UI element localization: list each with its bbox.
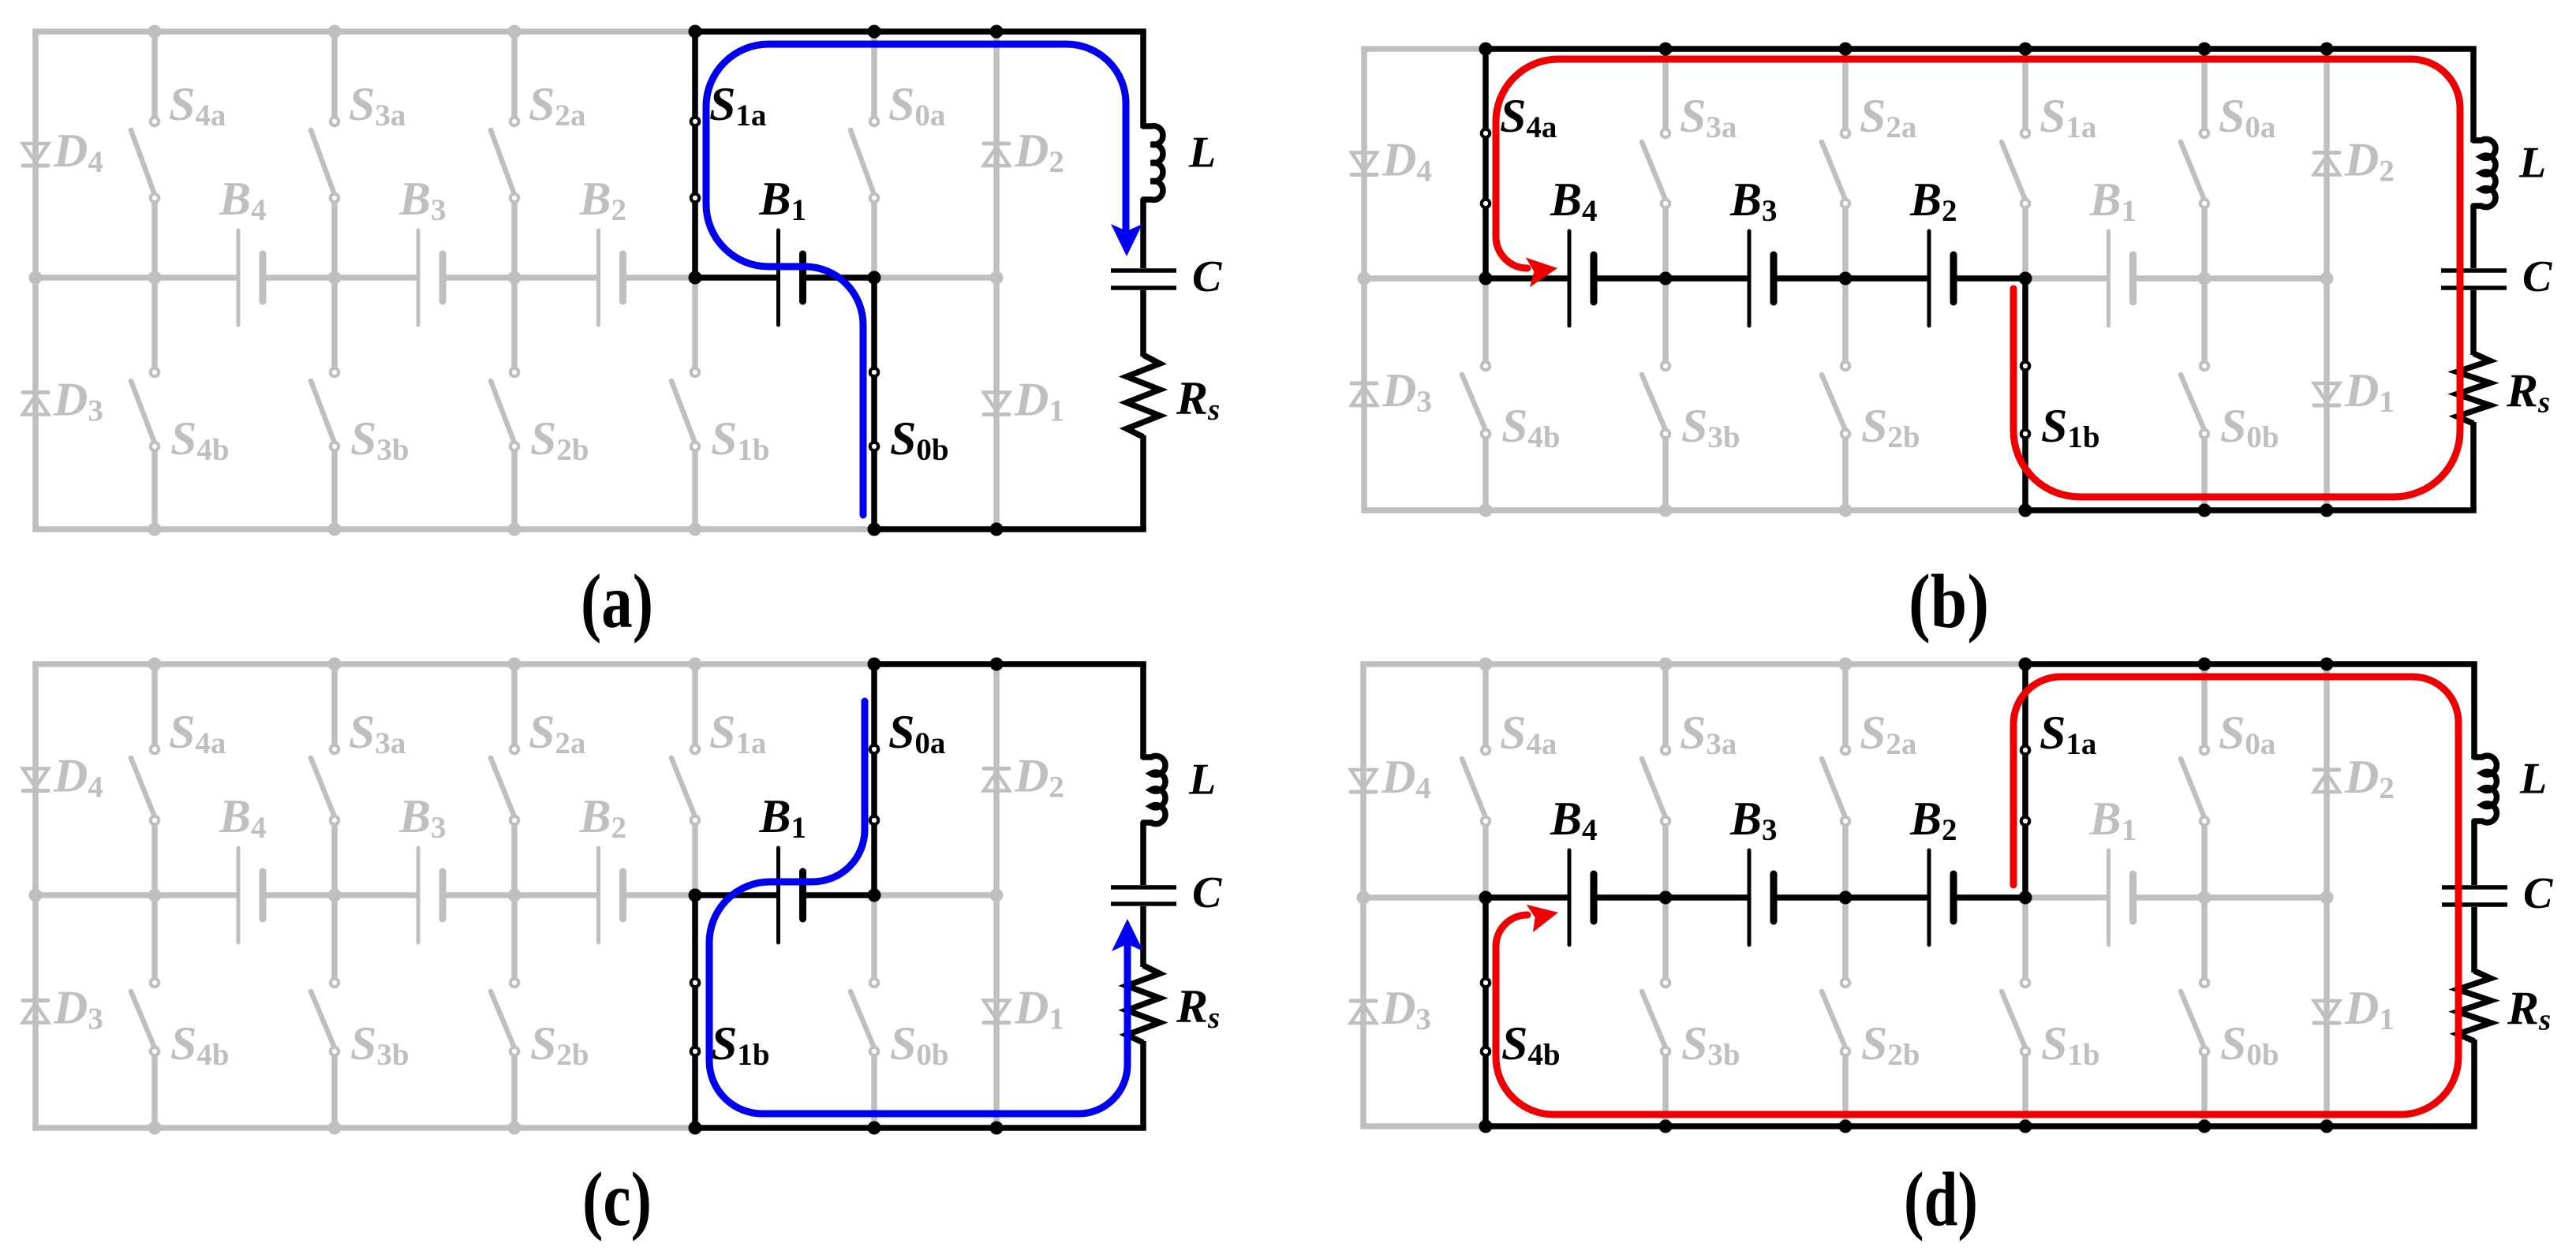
switch S2a (open) (d): [1822, 664, 1849, 898]
junction: bottom rail @S3 (a): [328, 523, 342, 536]
junction: top rail @S3 (b): [1659, 43, 1673, 56]
battery B3 (b): [1749, 231, 1774, 326]
wire: output branch C-Rs (b): [2470, 290, 2477, 355]
switch S1b (closed) (c): [691, 895, 699, 1128]
junction: bottom rail @S4 (d): [1479, 1120, 1493, 1133]
junction: bottom rail @S1 (a): [689, 523, 702, 536]
junction: top rail @D (c): [990, 658, 1004, 671]
wire: output branch L-C (b): [2470, 206, 2477, 268]
wire: middle rail segment S3-B3 (c): [335, 892, 418, 898]
junction: bottom rail @S1 (c): [689, 1122, 702, 1135]
wire: middle rail segment S2-B2 (b): [1845, 275, 1929, 282]
junction: top rail @S0 (b): [2198, 43, 2211, 56]
battery B4 (d): [1569, 850, 1594, 945]
junction: middle rail @S4 (b): [1479, 272, 1493, 286]
wire: output branch top (d): [2471, 664, 2477, 759]
junction: middle rail @S1 (a): [689, 271, 702, 285]
switch S0b (open) (d): [2181, 898, 2208, 1126]
junction: top rail @S4 (c): [148, 658, 162, 671]
junction: top rail @S3 (d): [1659, 658, 1673, 671]
junction: middle rail @S4 (a): [148, 271, 162, 285]
junction: top rail @S2 (a): [508, 25, 522, 39]
wire: middle rail segment B4-S3 (d): [1594, 894, 1666, 901]
wire: top rail gray segment (c): [32, 661, 874, 667]
junction: middle rail @S0 (d): [2198, 891, 2211, 905]
wire: middle rail segment B1-S0 (a): [803, 274, 875, 281]
wire: output branch C-Rs (a): [1140, 290, 1146, 356]
switch S4b (open) (a): [131, 278, 159, 529]
switch S2a (open) (a): [491, 32, 518, 278]
wire: middle rail segment B4-S3 (b): [1594, 275, 1666, 282]
svg-text:L: L: [2519, 755, 2547, 804]
diode D1 (a): [984, 393, 1009, 415]
switch S1b (closed) (b): [2021, 278, 2029, 510]
svg-text:(d): (d): [1904, 1157, 1978, 1241]
wire: bot rail black segment (d): [1486, 1123, 2477, 1129]
wire: middle rail segment B3-S2 (b): [1774, 275, 1845, 282]
svg-text:L: L: [1188, 129, 1216, 177]
junction: bottom rail @S3 (c): [328, 1122, 342, 1135]
switch S2b (open) (b): [1822, 278, 1849, 510]
junction: top rail @S2 (c): [508, 658, 522, 671]
junction: middle rail @S4 (c): [148, 889, 162, 902]
junction: bottom rail @S4 (a): [148, 523, 162, 536]
junction: bottom rail @S4 (c): [148, 1122, 162, 1135]
capacitor C (b): [2441, 271, 2507, 288]
junction: bottom rail @D (d): [2320, 1120, 2334, 1133]
wire: top rail gray segment (b): [1361, 46, 1486, 52]
junction: top rail @S3 (c): [328, 658, 342, 671]
switch S3b (open) (b): [1642, 278, 1669, 510]
wire: bot rail gray segment (c): [32, 1125, 695, 1131]
wire: middle rail segment S2-B2 (d): [1845, 894, 1929, 901]
wire: middle rail segment B2-S1 (c): [623, 892, 696, 898]
capacitor C (c): [1111, 887, 1176, 904]
junction: bottom rail @S3 (b): [1659, 504, 1673, 517]
junction: bottom rail @S1 (d): [2019, 1120, 2032, 1133]
switch S3a (open) (d): [1642, 664, 1669, 898]
junction: middle rail @S1 (c): [689, 889, 702, 902]
switch S1a (closed) (a): [691, 32, 699, 278]
wire: top rail black segment (b): [1486, 46, 2477, 52]
junction: top rail @S1 (b): [2019, 43, 2032, 56]
junction: middle rail @D (d): [2320, 891, 2334, 905]
junction: middle rail @S0 (a): [868, 271, 881, 285]
diode D2 (b): [2314, 153, 2339, 175]
battery B1 (b): [2109, 231, 2133, 326]
panel (a) schematic: [23, 25, 1222, 644]
wire: bot rail black segment (a): [874, 526, 1146, 532]
junction: bottom rail @S0 (b): [2198, 504, 2211, 517]
battery B1 (a): [779, 230, 803, 325]
current path: red charge loop through S1a,B2,B3,B4,S4b,Rs,C,L (d): [1496, 677, 2458, 1114]
junction: top rail @D (a): [990, 25, 1004, 39]
svg-text:(a): (a): [581, 559, 653, 644]
wire: middle rail segment S4-B4 (c): [155, 892, 238, 898]
junction: top rail @D (d): [2320, 658, 2334, 671]
battery B2 (c): [599, 848, 623, 943]
svg-text:C: C: [1192, 868, 1222, 917]
switch S0b (open) (c): [851, 895, 878, 1128]
diode D3 (d): [1351, 1001, 1376, 1023]
junction: top rail @S0 (a): [868, 25, 881, 39]
wire: middle rail segment S0-D (c): [874, 892, 996, 898]
battery B4 (c): [238, 848, 263, 943]
switch S2b (open) (d): [1822, 898, 1849, 1126]
wire: middle rail segment LEFT-S4 (c): [36, 892, 155, 898]
switch S3b (open) (a): [311, 278, 338, 529]
wire: middle rail segment S1-B1 (d): [2025, 894, 2109, 901]
resistor Rs (c): [1127, 965, 1160, 1043]
junction: top rail @S4 (b): [1479, 43, 1493, 56]
junction: bottom rail @S1 (b): [2019, 504, 2032, 517]
junction: bottom rail @S0 (d): [2198, 1120, 2211, 1133]
diode D3 (c): [23, 1001, 48, 1023]
wire: middle rail segment S3-B3 (d): [1666, 894, 1749, 901]
junction: middle rail @S2 (a): [508, 271, 522, 285]
wire: middle rail segment B2-S1 (b): [1953, 275, 2025, 282]
junction: bottom rail @S2 (c): [508, 1122, 522, 1135]
switch S1b (open) (a): [671, 278, 699, 529]
wire: middle rail segment S3-B3 (b): [1666, 275, 1749, 282]
svg-text:C: C: [2522, 252, 2552, 301]
inductor L (b): [2473, 139, 2496, 207]
wire: output branch bottom (d): [2471, 1040, 2477, 1126]
svg-text:C: C: [2523, 869, 2553, 918]
wire: middle rail segment S1-B1 (b): [2025, 275, 2109, 282]
wire: middle rail segment LEFT-S4 (a): [36, 274, 155, 281]
wire: middle rail segment S1-B1 (c): [695, 892, 779, 898]
switch S4b (open) (c): [131, 895, 159, 1128]
junction: middle rail @LEFT (d): [1357, 891, 1370, 905]
switch S0b (closed) (a): [870, 278, 878, 529]
wire: output branch top (c): [1140, 664, 1146, 759]
switch S0a (open) (b): [2181, 49, 2208, 278]
wire: middle rail segment S0-D (d): [2204, 894, 2327, 901]
wire: output branch L-C (d): [2471, 821, 2477, 885]
switch S1a (open) (c): [671, 664, 699, 895]
junction: middle rail @S1 (b): [2019, 272, 2032, 286]
wire: middle rail segment B1-S0 (d): [2133, 894, 2205, 901]
battery B3 (a): [418, 230, 443, 325]
capacitor C (a): [1111, 271, 1176, 288]
switch S4a (closed) (b): [1482, 49, 1490, 278]
junction: top rail @S1 (c): [689, 658, 702, 671]
switch S2b (open) (c): [491, 895, 518, 1128]
panel (b) schematic: [1352, 43, 2552, 644]
junction: middle rail @S1 (d): [2019, 891, 2032, 905]
diode D3 (a): [23, 393, 48, 415]
junction: middle rail @S0 (c): [868, 889, 881, 902]
switch S3a (open) (a): [311, 32, 338, 278]
switch S4a (open) (d): [1462, 664, 1490, 898]
junction: middle rail @D (b): [2320, 272, 2334, 286]
junction: bottom rail @S4 (b): [1479, 504, 1493, 517]
wire: left rail (d): [1360, 664, 1367, 1126]
switch S1b (open) (d): [2002, 898, 2029, 1126]
wire: middle rail segment S4-B4 (d): [1486, 894, 1569, 901]
junction: bottom rail @S3 (d): [1659, 1120, 1673, 1133]
junction: middle rail @S3 (d): [1659, 891, 1673, 905]
junction: top rail @D (b): [2320, 43, 2334, 56]
battery B4 (b): [1569, 231, 1594, 326]
battery B1 (d): [2109, 850, 2133, 945]
junction: middle rail @S3 (b): [1659, 272, 1673, 286]
switch S4a (open) (c): [131, 664, 159, 895]
switch S4b (closed) (d): [1482, 898, 1490, 1126]
diode D1 (b): [2314, 383, 2339, 405]
switch S0a (open) (a): [851, 32, 878, 278]
wire: middle rail segment S2-B2 (c): [514, 892, 599, 898]
junction: bottom rail @S2 (a): [508, 523, 522, 536]
wire: output branch top (a): [1140, 32, 1146, 128]
wire: middle rail segment B1-S0 (b): [2133, 275, 2205, 282]
current path: blue discharge loop through B1,S1a,L,C,Rs,S0b (a): [706, 44, 1142, 515]
wire: middle rail segment B2-S1 (d): [1953, 894, 2025, 901]
diode D2 (a): [984, 144, 1009, 166]
diode D4 (b): [1352, 153, 1377, 175]
wire: output branch top (b): [2470, 49, 2477, 142]
junction: top rail @S1 (a): [689, 25, 702, 39]
wire: middle rail segment S0-D (a): [874, 274, 996, 281]
diode D4 (c): [23, 769, 48, 791]
junction: top rail @S0 (d): [2198, 658, 2211, 671]
panel (c) schematic: [23, 658, 1222, 1242]
battery B1 (c): [779, 848, 803, 943]
wire: middle rail segment B4-S3 (c): [263, 892, 335, 898]
wire: middle rail segment B3-S2 (c): [443, 892, 514, 898]
junction: bottom rail @S0 (a): [868, 523, 881, 536]
junction: top rail @S2 (b): [1839, 43, 1853, 56]
wire: middle rail segment B3-S2 (a): [443, 274, 514, 281]
battery B2 (a): [599, 230, 623, 325]
wire: bot rail black segment (b): [2025, 507, 2477, 513]
junction: middle rail @LEFT (b): [1358, 272, 1371, 286]
wire: output branch bottom (a): [1140, 435, 1146, 529]
current path: red discharge loop through S4a,B4,B3,B2,S1b,Rs,C,L (b): [1496, 59, 2460, 497]
wire: middle rail segment S4-B4 (b): [1486, 275, 1569, 282]
junction: middle rail @D (a): [990, 271, 1004, 285]
junction: middle rail @LEFT (c): [29, 889, 43, 902]
wire: diode leg D2/D1 (b): [2324, 49, 2330, 510]
wire: middle rail segment LEFT-S4 (d): [1363, 894, 1486, 901]
junction: top rail @S4 (a): [148, 25, 162, 39]
junction: bottom rail @D (a): [990, 523, 1004, 536]
svg-text:L: L: [1188, 756, 1216, 804]
switch S1a (open) (b): [2002, 49, 2029, 278]
wire: middle rail segment B3-S2 (d): [1774, 894, 1845, 901]
junction: bottom rail @S2 (b): [1839, 504, 1853, 517]
battery B3 (c): [418, 848, 443, 943]
wire: middle rail segment S1-B1 (a): [695, 274, 779, 281]
battery B3 (d): [1749, 850, 1774, 945]
wire: middle rail segment LEFT-S4 (b): [1364, 275, 1486, 282]
junction: middle rail @S2 (d): [1839, 891, 1853, 905]
wire: output branch C-Rs (c): [1140, 906, 1146, 967]
wire: middle rail segment B2-S1 (a): [623, 274, 696, 281]
panel (d) schematic: [1351, 658, 2553, 1242]
junction: middle rail @S4 (d): [1479, 891, 1493, 905]
junction: top rail @S4 (d): [1479, 658, 1493, 671]
battery B2 (b): [1929, 231, 1953, 326]
wire: diode leg D2/D1 (d): [2324, 664, 2330, 1126]
switch S3b (open) (d): [1642, 898, 1669, 1126]
wire: output branch C-Rs (d): [2471, 907, 2477, 972]
junction: middle rail @D (c): [990, 889, 1004, 902]
wire: middle rail segment S4-B4 (a): [155, 274, 238, 281]
switch S2a (open) (b): [1822, 49, 1849, 278]
wire: diode leg D2/D1 (a): [993, 32, 1000, 529]
wire: top rail gray segment (a): [32, 28, 695, 35]
switch S3b (open) (c): [311, 895, 338, 1128]
diode D3 (b): [1352, 383, 1377, 405]
wire: left rail (b): [1361, 49, 1367, 510]
junction: middle rail @S3 (a): [328, 271, 342, 285]
diode D2 (c): [984, 769, 1009, 791]
wire: middle rail segment B1-S0 (c): [803, 892, 875, 898]
switch S0a (open) (d): [2181, 664, 2208, 898]
junction: middle rail @S0 (b): [2198, 272, 2211, 286]
junction: top rail @S3 (a): [328, 25, 342, 39]
wire: bot rail gray segment (d): [1360, 1123, 1486, 1129]
switch S0b (open) (b): [2181, 278, 2208, 510]
battery B2 (d): [1929, 850, 1953, 945]
junction: bottom rail @S0 (c): [868, 1122, 881, 1135]
wire: output branch L-C (c): [1140, 823, 1146, 885]
inductor L (a): [1143, 126, 1163, 200]
wire: middle rail segment S3-B3 (a): [335, 274, 418, 281]
current path: blue charge loop through S0a,B1,S1b,Rs,C (c): [709, 701, 1143, 1114]
svg-text:(c): (c): [582, 1157, 652, 1241]
switch S3a (open) (c): [311, 664, 338, 895]
resistor Rs (b): [2457, 353, 2490, 424]
wire: middle rail segment B4-S3 (a): [263, 274, 335, 281]
wire: output branch bottom (c): [1140, 1041, 1146, 1128]
switch S4b (open) (b): [1462, 278, 1490, 510]
resistor Rs (a): [1127, 355, 1160, 437]
inductor L (c): [1143, 756, 1165, 823]
junction: middle rail @S2 (b): [1839, 272, 1853, 286]
wire: diode leg D2/D1 (c): [993, 664, 1000, 1128]
switch S1a (closed) (d): [2021, 664, 2029, 898]
switch S4a (open) (a): [131, 32, 159, 278]
junction: middle rail @S2 (c): [508, 889, 522, 902]
diode D4 (a): [23, 144, 48, 166]
wire: top rail black segment (d): [2025, 661, 2477, 667]
wire: output branch L-C (a): [1140, 200, 1146, 268]
diode D2 (d): [2314, 770, 2339, 792]
wire: middle rail segment S2-B2 (a): [514, 274, 599, 281]
resistor Rs (d): [2458, 971, 2491, 1041]
wire: bot rail black segment (c): [695, 1125, 1146, 1131]
junction: top rail @S1 (d): [2019, 658, 2032, 671]
wire: bot rail gray segment (b): [1361, 507, 2025, 513]
junction: bottom rail @S2 (d): [1839, 1120, 1853, 1133]
inductor L (d): [2474, 756, 2496, 823]
switch S0a (closed) (c): [870, 664, 878, 895]
wire: top rail gray segment (d): [1360, 661, 2025, 667]
svg-text:C: C: [1192, 252, 1222, 301]
wire: middle rail segment S0-D (b): [2204, 275, 2327, 282]
junction: top rail @S0 (c): [868, 658, 881, 671]
junction: middle rail @S3 (c): [328, 889, 342, 902]
wire: left rail (a): [32, 32, 39, 529]
junction: bottom rail @D (c): [990, 1122, 1004, 1135]
svg-text:L: L: [2518, 139, 2546, 188]
svg-text:(b): (b): [1909, 559, 1989, 644]
wire: top rail black segment (a): [695, 28, 1146, 35]
junction: bottom rail @D (b): [2320, 504, 2334, 517]
switch S3a (open) (b): [1642, 49, 1669, 278]
diode D1 (d): [2314, 1001, 2339, 1023]
capacitor C (d): [2442, 887, 2507, 905]
diode D1 (c): [984, 1001, 1009, 1023]
wire: top rail black segment (c): [874, 661, 1146, 667]
switch S2a (open) (c): [491, 664, 518, 895]
junction: top rail @S2 (d): [1839, 658, 1853, 671]
wire: bot rail gray segment (a): [32, 526, 874, 532]
wire: output branch bottom (b): [2470, 422, 2477, 510]
diode D4 (d): [1351, 770, 1376, 792]
switch S2b (open) (a): [491, 278, 518, 529]
junction: middle rail @LEFT (a): [29, 271, 43, 285]
battery B4 (a): [238, 230, 263, 325]
wire: left rail (c): [32, 664, 39, 1128]
